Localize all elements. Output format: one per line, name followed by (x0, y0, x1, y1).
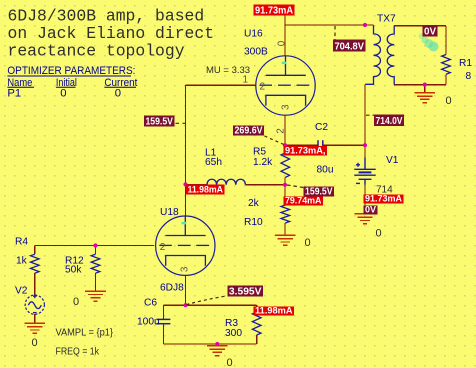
wire R5 top stub (284, 145, 286, 153)
svg-text:269.6V: 269.6V (235, 126, 263, 137)
wire C6 ground stub (216, 344, 218, 346)
svg-text:U16: U16 (244, 29, 263, 40)
current label 91.73mA at R5 (284, 146, 328, 157)
resistor R3 (252, 312, 261, 335)
voltage label 0V secondary (423, 26, 438, 38)
node junction bottom rail ground (215, 342, 219, 346)
svg-text:3.595V: 3.595V (229, 287, 262, 298)
svg-text:1: 1 (243, 75, 249, 86)
wire secondary bottom lead (394, 84, 446, 86)
wire cathode node rail (163, 304, 256, 306)
voltage label 704.8V (333, 40, 366, 53)
resistor R1 (442, 55, 451, 75)
svg-text:91.73mA,: 91.73mA, (285, 146, 326, 157)
wire R12 top stub (95, 246, 97, 255)
svg-text:C2: C2 (315, 122, 328, 133)
svg-text:100u: 100u (137, 316, 160, 327)
ground C6/R3 ground (207, 346, 228, 356)
svg-text:V1: V1 (386, 155, 399, 166)
svg-text:1k: 1k (16, 255, 28, 266)
ground R10 ground (275, 235, 296, 245)
wire cathode node to C2 (285, 144, 318, 146)
resistor R5 (281, 153, 290, 178)
wire R1 top lead (445, 26, 447, 55)
leader dash to 159.5V top (176, 122, 187, 124)
svg-text:65h: 65h (205, 157, 222, 168)
node junction U18 cathode node (183, 303, 187, 307)
svg-text:0V: 0V (365, 205, 377, 216)
wire R12 to ground (95, 273, 97, 291)
wire U18 plate stub (185, 185, 187, 217)
triode tube U18 (156, 216, 215, 275)
svg-text:FREQ = 1k: FREQ = 1k (56, 347, 100, 358)
svg-text:2: 2 (260, 82, 266, 93)
current label 11.98mA at L1 (186, 185, 225, 196)
wire U18 cathode drop (185, 275, 187, 305)
svg-text:R10: R10 (244, 217, 263, 228)
wire V2 to ground (34, 314, 36, 323)
current label 91.73mA at V1 (364, 194, 404, 205)
battery V1 (354, 158, 375, 185)
svg-text:0: 0 (305, 237, 311, 249)
svg-text:TX7: TX7 (377, 14, 396, 25)
svg-text:V2: V2 (15, 285, 28, 296)
current label 91.73mA top (254, 5, 295, 17)
wire R3 top stub (256, 305, 258, 312)
marker tick on U16 plate (282, 62, 287, 64)
svg-text:11.98mA: 11.98mA (187, 185, 223, 196)
voltage label 269.6V (233, 126, 264, 137)
node junction secondary ground node (423, 83, 427, 87)
transformer TX7 primary winding (365, 25, 380, 84)
svg-text:OPTIMIZER PARAMETERS:: OPTIMIZER PARAMETERS: (7, 65, 135, 77)
wire U16 grid wire (186, 84, 257, 86)
svg-text:R1: R1 (459, 58, 472, 69)
svg-text:714.0V: 714.0V (376, 116, 403, 127)
svg-text:on Jack Eliano direct: on Jack Eliano direct (8, 24, 215, 43)
teal marker blob (419, 31, 439, 52)
wire secondary ground stub (424, 85, 426, 93)
node junction R4/R12 input (93, 243, 97, 247)
current label 79.74mA (284, 196, 324, 207)
wire L1 right lead (245, 184, 285, 186)
wire U16 plate drop (284, 25, 286, 56)
ground secondary ground (415, 93, 436, 103)
marker tick on U18 plate (182, 222, 187, 224)
svg-text:159.5V: 159.5V (145, 117, 173, 128)
svg-text:2k: 2k (248, 198, 260, 209)
svg-text:80u: 80u (317, 165, 334, 176)
leader dash to 3.595V (187, 296, 228, 305)
svg-text:0: 0 (276, 40, 287, 46)
wire battery to ground (364, 185, 366, 214)
wire input rail to U18 grid (35, 245, 154, 247)
wire current label stub (284, 16, 286, 26)
svg-text:0: 0 (32, 337, 38, 349)
svg-text:0: 0 (73, 296, 79, 308)
leader dash to 159.5V lower (287, 185, 304, 188)
capacitor C2 (318, 140, 323, 149)
svg-text:50k: 50k (65, 264, 82, 275)
voltage label 159.5V upper (144, 116, 175, 128)
svg-text:0: 0 (376, 228, 382, 240)
node junction rail/primary (363, 23, 367, 27)
wire R10 top stub (284, 185, 286, 205)
svg-text:0V: 0V (424, 27, 436, 38)
wire C6 bottom stub (162, 324, 164, 344)
ground R12 ground (85, 291, 106, 301)
svg-text:8: 8 (466, 71, 472, 82)
wire U16 cathode drop (284, 115, 286, 145)
sine source V2 (25, 294, 44, 314)
svg-text:C6: C6 (144, 297, 157, 308)
wire L1 left lead (186, 184, 208, 186)
capacitor C6 (156, 319, 170, 323)
node junction grid column/L1 (183, 182, 187, 186)
svg-text:1.2k: 1.2k (253, 157, 273, 168)
svg-text:R4: R4 (15, 236, 28, 247)
voltage label 159.5V lower (304, 187, 335, 198)
svg-text:714: 714 (376, 185, 393, 196)
inductor L1 (207, 179, 245, 185)
svg-text:2: 2 (276, 128, 287, 134)
wire C6 top stub (162, 305, 164, 319)
svg-text:0: 0 (227, 357, 233, 368)
optimizer parameters table (7, 65, 138, 99)
triode tube U16 (256, 56, 315, 115)
leader dash to 269.6V (265, 136, 285, 145)
resistor R10 (281, 205, 290, 223)
current label 11.98mA at R3 (254, 306, 295, 317)
wire R1 bottom lead (445, 74, 447, 84)
svg-text:300B: 300B (244, 47, 268, 58)
wire bottom return rail (163, 343, 256, 345)
svg-text:704.8V: 704.8V (334, 42, 364, 53)
svg-text:3: 3 (281, 104, 292, 110)
wire R5 bottom stub (284, 177, 286, 184)
transformer TX7 secondary winding (387, 26, 394, 85)
ground V1 ground (355, 214, 376, 224)
wire primary bottom drop (364, 85, 366, 158)
svg-text:79.74mA: 79.74mA (285, 196, 322, 207)
resistor R12 (91, 254, 100, 273)
svg-text:VAMPL = {p1}: VAMPL = {p1} (56, 328, 114, 339)
svg-text:300: 300 (225, 328, 242, 339)
wire top rail plate to transformer (285, 24, 374, 26)
resistor R4 (31, 254, 40, 273)
svg-text:R5: R5 (253, 147, 266, 158)
leader dash to 704.8V (334, 26, 336, 40)
title text (8, 6, 215, 60)
svg-text:6DJ8: 6DJ8 (160, 282, 184, 293)
voltage label 714.0V (374, 115, 404, 128)
voltage label 0V at V1 (364, 205, 378, 216)
svg-text:0: 0 (446, 95, 452, 107)
svg-text:2: 2 (160, 242, 166, 253)
svg-text:P1: P1 (7, 88, 21, 100)
svg-text:reactance topology: reactance topology (8, 42, 185, 61)
wire R4 to V2 (34, 273, 36, 295)
wire secondary top lead (394, 25, 446, 27)
svg-text:0: 0 (115, 88, 121, 100)
svg-text:0: 0 (60, 88, 66, 100)
svg-text:11.98mA: 11.98mA (255, 306, 293, 317)
voltage label 3.595V (228, 286, 264, 298)
wire grid column (185, 85, 187, 185)
leader dash to 714.0V (366, 114, 374, 116)
svg-text:3: 3 (179, 266, 190, 272)
svg-text:U18: U18 (160, 207, 179, 218)
wire R10 to ground (284, 223, 286, 235)
node junction cathode node (283, 143, 287, 147)
wire C2 to battery node (323, 144, 365, 146)
svg-text:6DJ8/300B amp, based: 6DJ8/300B amp, based (8, 6, 205, 25)
svg-text:91.73mA: 91.73mA (255, 6, 293, 17)
node junction C2/V1 node (363, 143, 367, 147)
wire R4 top stub (34, 246, 36, 255)
ground V2 ground (25, 323, 46, 333)
wire R3 bottom stub (256, 335, 258, 344)
node junction L1/R5/R10 (283, 183, 287, 187)
